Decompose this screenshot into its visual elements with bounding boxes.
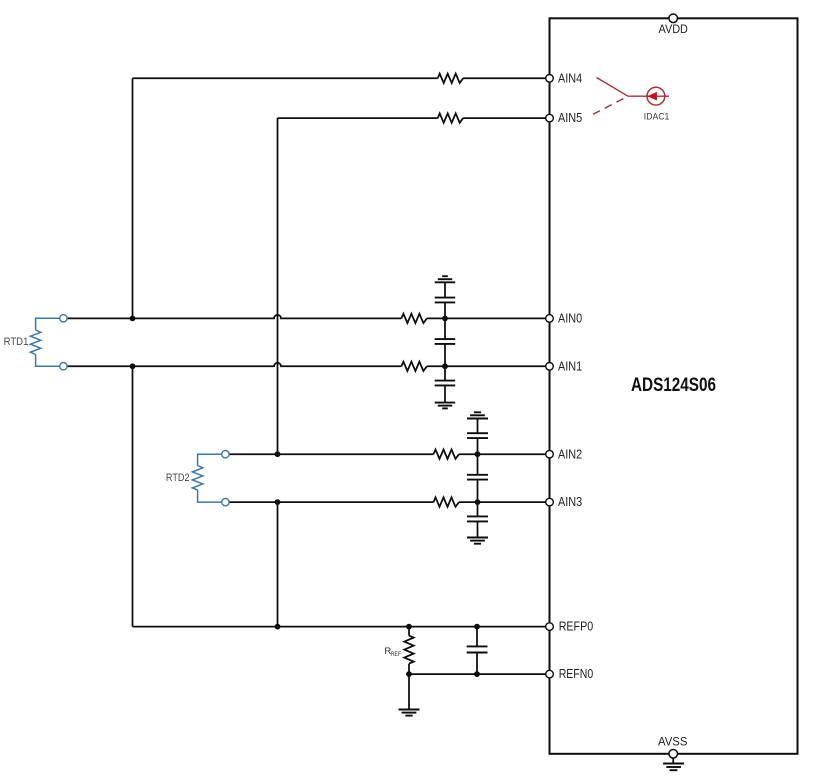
ground symbol below C6: [467, 538, 488, 544]
wire AIN1 row with hop over vertical wire: [67, 363, 401, 367]
capacitor C3 AIN1 to ground: [435, 366, 456, 402]
ground symbol above C1 (AIN0 filter, inverted): [435, 276, 456, 297]
svg-text:REF: REF: [391, 651, 401, 658]
svg-text:RTD1: RTD1: [4, 336, 29, 348]
junction RTD2 top / AIN5: [275, 451, 281, 457]
capacitor C6 AIN3 to ground: [467, 502, 488, 537]
svg-text:AIN1: AIN1: [558, 359, 582, 373]
junction AIN1 filter node: [442, 363, 448, 369]
RTD2 top terminal circle: [222, 451, 229, 458]
junction REFP0 row at x=277.5: [275, 624, 281, 630]
svg-text:REFN0: REFN0: [559, 667, 594, 681]
junction C7 top: [474, 624, 480, 630]
junction RTD2 bottom / REFP0 branch: [275, 499, 281, 505]
wire AIN4 to pin: [463, 77, 546, 79]
wire AIN5 horizontal left segment: [278, 117, 438, 119]
current source IDAC1 horizontal line: [628, 95, 669, 97]
pin REFP0 terminal circle: [546, 623, 554, 631]
ground symbol below C3: [435, 403, 456, 409]
resistor on AIN3 line: [434, 497, 460, 506]
resistor on AIN2 line: [434, 450, 460, 459]
wire AIN3 to pin: [459, 501, 546, 503]
svg-text:ADS124S06: ADS124S06: [631, 374, 716, 396]
current source IDAC1 arrow: [647, 92, 657, 101]
RTD1 bottom terminal circle: [60, 363, 67, 370]
svg-text:AIN0: AIN0: [558, 312, 582, 326]
current source IDAC1 circle: [647, 87, 665, 105]
ground symbol below RREF: [399, 710, 420, 716]
pin AIN0 terminal circle: [546, 315, 554, 323]
pin AIN2 terminal circle: [546, 450, 554, 458]
junction RREF bottom: [406, 671, 412, 677]
wire AIN3 row left segment: [229, 501, 433, 503]
pin AIN3 terminal circle: [546, 498, 554, 506]
capacitor C7 across REFP0-REFN0: [467, 627, 488, 675]
svg-text:RTD2: RTD2: [166, 472, 190, 484]
resistor on AIN1 line: [401, 362, 427, 371]
svg-text:AIN3: AIN3: [558, 495, 582, 509]
wire AIN4 horizontal left segment: [133, 77, 438, 79]
svg-text:AVDD: AVDD: [659, 22, 688, 36]
junction C7 bottom: [474, 671, 480, 677]
capacitor C5 differential AIN2-AIN3: [467, 454, 488, 502]
junction AIN2 filter node: [475, 451, 481, 457]
junction RREF top: [406, 624, 412, 630]
wire REFP0 row: [133, 626, 546, 628]
wire AIN2 row left segment: [229, 453, 433, 455]
junction AIN3 filter node: [475, 499, 481, 505]
svg-text:AIN5: AIN5: [558, 111, 582, 125]
wire AIN2 to pin: [459, 453, 546, 455]
capacitor C4 AIN2 to ground: [467, 433, 488, 454]
svg-text:AIN2: AIN2: [558, 447, 582, 461]
pin AIN1 terminal circle: [546, 363, 554, 371]
resistor on AIN5 line: [438, 113, 463, 122]
pin REFN0 terminal circle: [546, 670, 554, 678]
pin AVDD terminal circle: [669, 14, 678, 23]
resistor RREF: [404, 627, 413, 675]
IC U1 ADS124S06 body: [550, 18, 798, 754]
junction AIN0 filter node: [442, 316, 448, 322]
svg-text:AIN4: AIN4: [558, 71, 582, 85]
current source IDAC1 routing dashed line from AIN5: [593, 96, 628, 114]
RTD2 bottom terminal circle: [222, 498, 229, 505]
junction RTD1 top / AIN4: [130, 316, 136, 322]
wire AIN1 to pin: [427, 365, 546, 367]
pin AIN4 terminal circle: [546, 75, 554, 83]
pin AIN5 terminal circle: [546, 114, 554, 122]
wire AIN5 vertical down to RTD2 top node: [277, 118, 279, 454]
wire AIN0 to pin: [427, 317, 546, 319]
wire REFN0 row: [409, 673, 546, 675]
current source IDAC1 routing solid line from AIN4: [597, 78, 629, 97]
svg-text:IDAC1: IDAC1: [644, 112, 670, 122]
ground symbol below AVSS: [663, 758, 684, 770]
RTD1 sensor: [30, 318, 59, 366]
junction RTD1 bottom / REFP0 branch: [130, 363, 136, 369]
wire AIN4 vertical down to RTD1 top node: [132, 78, 134, 318]
wire RTD1 bottom node down to REFP0 row: [132, 366, 134, 626]
svg-text:AVSS: AVSS: [658, 735, 687, 749]
capacitor C2 differential AIN0-AIN1: [435, 318, 456, 366]
RTD2 sensor: [192, 454, 221, 502]
RTD1 top terminal circle: [60, 315, 67, 322]
resistor on AIN0 line: [401, 314, 427, 323]
wire AIN0 row with hop over vertical wire: [67, 315, 401, 319]
wire RTD2 bottom node down to REFP0 row: [277, 502, 279, 626]
svg-text:REFP0: REFP0: [559, 620, 594, 634]
capacitor C1 AIN0 to ground: [435, 298, 456, 319]
wire AIN5 to pin: [463, 117, 546, 119]
resistor on AIN4 line: [438, 74, 463, 83]
pin AVSS terminal circle: [669, 750, 678, 759]
wire RREF bottom to ground: [408, 674, 410, 709]
ground symbol above C4 (AIN2 filter, inverted): [467, 412, 488, 433]
